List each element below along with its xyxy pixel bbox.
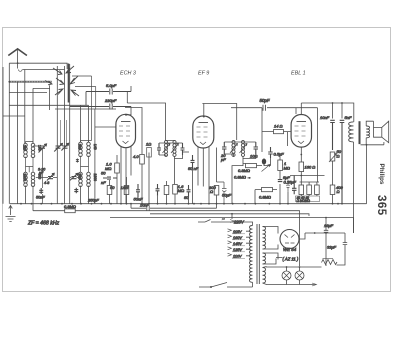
node lamp2 top xyxy=(299,266,301,268)
pot arrow xyxy=(329,154,337,163)
output transformer primary xyxy=(349,122,354,142)
wire EBL1 g2 loop xyxy=(296,108,318,182)
svg-text:pF: pF xyxy=(38,171,44,175)
svg-text:50pF: 50pF xyxy=(260,98,270,103)
lamp 2 cross xyxy=(296,272,302,278)
wire IF2 top xyxy=(224,141,256,143)
wire rect heater xyxy=(276,256,283,260)
transformer core xyxy=(257,224,259,284)
wire pot down xyxy=(332,161,334,185)
capacitor 50nF mid xyxy=(136,184,140,198)
transformer HV secondary xyxy=(263,227,266,250)
svg-text:380: 380 xyxy=(78,174,82,180)
resistor 50k xyxy=(107,186,112,195)
wire IF1 out right xyxy=(183,151,190,153)
border frame of scan xyxy=(3,28,391,292)
wire EBL1 anode riser xyxy=(301,103,354,122)
node EBL1 cath xyxy=(300,154,302,156)
wire osc components leads xyxy=(110,177,127,204)
wire 14ohm net xyxy=(262,108,292,152)
wire cath to bias line xyxy=(300,172,320,183)
wire rectifier cathode out xyxy=(299,233,345,239)
resistor 400 Ohm out xyxy=(330,185,335,195)
wire mid leads to rail xyxy=(149,153,193,204)
svg-text:10Ω: 10Ω xyxy=(250,154,258,159)
wire bottom arrow xyxy=(312,283,317,286)
wire EF9 screen bus xyxy=(231,107,318,109)
tube EF9 anode bar xyxy=(199,122,209,124)
capacitor 50n ebl xyxy=(292,176,297,195)
svg-text:MΩ: MΩ xyxy=(178,188,184,193)
tube EBL1 grid dashes xyxy=(295,126,306,136)
capacitor 50nF osc xyxy=(103,177,117,179)
output transformer secondary xyxy=(366,126,369,138)
IF2 trimmer arrow a xyxy=(230,144,238,154)
wire gnd riser speaker xyxy=(366,145,368,204)
coil L1 xyxy=(24,143,28,157)
wire IF1 secondary down xyxy=(174,159,176,185)
wire right coil column 1 xyxy=(80,105,82,142)
trimmer capacitor T2 xyxy=(54,144,62,152)
svg-text:Ω: Ω xyxy=(210,189,213,194)
capacitor mid small xyxy=(156,184,160,196)
wire HV bottom xyxy=(263,245,279,250)
transformer fil winding xyxy=(263,253,266,264)
svg-text:16μF: 16μF xyxy=(324,223,334,228)
output transformer core xyxy=(359,121,361,144)
coil L5 xyxy=(79,142,83,156)
node rect out 2 xyxy=(325,232,327,234)
capacitor 5uF xyxy=(286,180,290,192)
resistor 0.8M lower xyxy=(262,188,273,192)
switch contact arrow 2 xyxy=(66,66,74,73)
wire osc feed a xyxy=(72,76,92,141)
wire EF9 anode loop xyxy=(202,104,236,141)
coil L4 xyxy=(31,172,35,186)
svg-text:1/25: 1/25 xyxy=(121,185,130,190)
resistor 0.8M rail xyxy=(65,209,76,213)
capacitor 10nF rail xyxy=(131,204,217,211)
tap arrows xyxy=(228,229,232,256)
capacitor 50pF xyxy=(263,105,265,111)
wire switch link xyxy=(33,87,50,89)
wire coil C leads down xyxy=(81,186,89,204)
tube ECH3 cathode xyxy=(123,141,129,144)
volume pot arrow xyxy=(262,165,271,172)
capacitor 220pF xyxy=(70,104,131,110)
wire IF1 top xyxy=(159,135,183,143)
wire bus y109 xyxy=(55,108,116,110)
mains switch lever xyxy=(199,283,253,288)
resistor 300 cathode xyxy=(214,186,219,196)
trimmer capacitor T4 xyxy=(47,173,54,180)
svg-text:50nF: 50nF xyxy=(36,196,45,200)
wire long bus y105 xyxy=(9,104,88,106)
wire trimmer T2 T3 tops xyxy=(61,120,67,146)
resistor 400a xyxy=(299,185,304,195)
switch contact arrow 4 xyxy=(70,76,78,84)
wire bus y210 xyxy=(33,204,300,266)
wire coil A bottom link xyxy=(26,157,34,172)
resistor 400b xyxy=(307,185,312,195)
trimmer capacitor T5 xyxy=(70,173,78,180)
svg-text:160V: 160V xyxy=(233,236,242,240)
resistor mid 1 xyxy=(164,186,169,195)
svg-text:0.8MΩ: 0.8MΩ xyxy=(259,195,271,200)
tube EF9 top cap dot xyxy=(203,116,205,118)
svg-text:140: 140 xyxy=(93,144,97,150)
wire grid cap riser xyxy=(126,86,131,115)
node tap2 xyxy=(341,102,343,104)
band switch shaft xyxy=(68,64,70,103)
svg-text:Ω: Ω xyxy=(337,189,340,194)
node speaker gnd xyxy=(366,144,368,146)
resistor 1M avc xyxy=(278,160,283,171)
capacitor 16uF xyxy=(324,218,329,240)
wire IF2 secondary down xyxy=(242,159,244,164)
svg-text:MΩ: MΩ xyxy=(284,166,290,171)
wire lamps verticals xyxy=(287,267,300,285)
svg-text:ECH 3: ECH 3 xyxy=(120,71,136,77)
svg-text:360: 360 xyxy=(78,144,82,150)
wire IF1 bottom xyxy=(159,155,183,159)
svg-text:0.8MΩ: 0.8MΩ xyxy=(238,168,250,173)
wire 220V tap feed xyxy=(198,214,232,222)
svg-text:160 Ω: 160 Ω xyxy=(305,165,316,170)
coil L2 xyxy=(31,143,35,157)
svg-text:5.0pF: 5.0pF xyxy=(106,83,117,88)
transformer lamp winding xyxy=(263,268,266,284)
node 220 tap xyxy=(231,213,233,215)
capacitor small 6.8pF xyxy=(76,159,79,163)
wire ech3 pin down 3 xyxy=(130,147,132,176)
IF2 trimmer arrow b xyxy=(240,144,248,154)
wire lamp loop bottom xyxy=(263,283,317,285)
node 400 rail xyxy=(332,203,334,205)
svg-text:4.0: 4.0 xyxy=(133,154,139,159)
tube ECH3 grid dashes xyxy=(119,126,130,136)
svg-text:115V: 115V xyxy=(233,230,242,234)
wire HV top to rectifier xyxy=(263,227,279,234)
svg-text:( AZ 11 ): ( AZ 11 ) xyxy=(283,257,299,262)
wire mid column 2 xyxy=(56,66,58,204)
wire osc resistor lead xyxy=(141,164,143,204)
svg-text:1000: 1000 xyxy=(23,174,27,182)
capacitor 5nF xyxy=(340,120,345,203)
svg-text:WE 54: WE 54 xyxy=(283,247,297,252)
speaker xyxy=(374,121,389,145)
wire lamp loop top xyxy=(263,252,346,268)
tube ECH3 xyxy=(116,114,136,147)
svg-text:0.8MΩ →: 0.8MΩ → xyxy=(234,175,251,180)
pilot lamp 2 xyxy=(295,271,304,280)
resistor screen feeder xyxy=(147,148,152,158)
svg-text:~: ~ xyxy=(222,217,225,222)
transformer primary winding xyxy=(250,226,253,283)
tube EF9 cathode xyxy=(200,142,206,145)
wire shielded core xyxy=(9,81,51,83)
wire fil to lamps xyxy=(263,253,279,264)
resistor 0.25M xyxy=(124,186,129,195)
wire osc grid resistor feed xyxy=(125,108,142,155)
wire coil C bottom link xyxy=(81,156,89,173)
wire primary top lead xyxy=(232,222,253,226)
svg-text:4-8: 4-8 xyxy=(44,181,49,185)
ground arrow xyxy=(9,206,13,216)
node tap1 xyxy=(332,102,334,104)
svg-text:0.8MΩ: 0.8MΩ xyxy=(64,204,76,209)
wire column x94.9 xyxy=(94,109,96,204)
wire osc grid loop xyxy=(127,92,165,136)
svg-text:1Ω: 1Ω xyxy=(146,142,151,147)
wire ech3 pin down 1 xyxy=(120,147,122,204)
switch contact top xyxy=(205,220,211,223)
svg-text:50μF: 50μF xyxy=(222,193,232,198)
wire bias line left xyxy=(290,175,325,177)
svg-text:125V: 125V xyxy=(233,248,242,252)
capacitor IF2 right xyxy=(254,142,259,154)
capacitor 50uF electrolytic xyxy=(222,182,227,204)
svg-text:pF: pF xyxy=(220,157,226,162)
wire left column 1 xyxy=(2,67,4,204)
IF1 trimmer arrow b xyxy=(171,144,179,154)
capacitor 0.25uF xyxy=(278,180,283,182)
wire avc net xyxy=(232,158,271,204)
wire 16uF down xyxy=(325,240,327,266)
ground symbol xyxy=(6,217,16,222)
switch contact arrow 1 xyxy=(53,68,62,75)
node rect out 1 xyxy=(314,232,316,234)
svg-text:110V: 110V xyxy=(233,255,242,259)
tube EF9 xyxy=(193,116,214,148)
capacitor IF1 left xyxy=(157,143,161,155)
capacitor mid small 2 xyxy=(187,185,191,197)
resistor 14 Ohm xyxy=(274,130,284,134)
wire EF9 pins down xyxy=(198,147,217,204)
antenna lead wire xyxy=(17,49,19,69)
pilot lamp 1 xyxy=(282,271,291,280)
wire trimmer T1 leads xyxy=(33,146,43,204)
coil L6 xyxy=(87,142,91,156)
resistor 400c xyxy=(315,185,320,195)
svg-text:32μF: 32μF xyxy=(327,245,337,250)
antenna plug contact xyxy=(19,70,23,72)
wire left column 2 xyxy=(8,63,10,204)
wire top bus 1 xyxy=(9,63,67,69)
capacitor 0.5uF xyxy=(268,147,273,158)
svg-text:Ω: Ω xyxy=(337,154,340,159)
wire IF2 bottom xyxy=(224,154,256,159)
wire bus y217.6 xyxy=(110,218,354,233)
resistor 4.0M osc xyxy=(140,155,145,165)
wire 1M leads xyxy=(279,155,281,204)
node osc rail xyxy=(141,203,143,205)
IF1 trimmer arrow a xyxy=(163,144,171,154)
tube EBL1 xyxy=(291,115,311,148)
label 400 box xyxy=(296,196,320,202)
trimmer capacitor T3 xyxy=(61,143,68,150)
wire 400 leads xyxy=(301,182,317,196)
trimmer capacitor T1 xyxy=(39,144,47,153)
wire osc feed b xyxy=(75,87,96,110)
wire left column 4 xyxy=(24,70,26,144)
wire mid column 4 xyxy=(69,64,71,204)
node antenna junction xyxy=(17,62,19,64)
switch dot xyxy=(210,286,212,288)
wire cathode net xyxy=(217,182,225,204)
switch contact arrow 5 xyxy=(55,89,63,95)
coil L7 xyxy=(79,172,83,186)
wire mid column 3 xyxy=(64,66,66,204)
svg-text:ZF = 468 kHz: ZF = 468 kHz xyxy=(27,221,60,227)
IF transformer 1 coil b xyxy=(173,141,176,157)
node 5nf rail xyxy=(341,203,343,205)
svg-text:50: 50 xyxy=(101,171,106,176)
rectifier tube WE54 xyxy=(280,230,299,249)
wire right coil column 2 xyxy=(88,105,90,142)
wire grid resistor leads xyxy=(116,155,118,204)
capacitor 250pF xyxy=(74,188,78,194)
wire left column 3 xyxy=(17,82,19,204)
svg-text:145V: 145V xyxy=(233,242,242,246)
node ech3 pin1 rail xyxy=(120,203,122,205)
wire coil top links xyxy=(26,141,89,144)
capacitor IF1 right xyxy=(181,143,185,155)
tube EBL1 cathode xyxy=(298,141,304,144)
node A xyxy=(8,81,10,83)
tube ECH3 anode bar xyxy=(121,121,131,123)
field coil hatch xyxy=(323,258,334,260)
wire bus y92.5 xyxy=(9,92,47,94)
svg-text:10nF: 10nF xyxy=(320,115,330,120)
capacitor IF2 left xyxy=(222,142,227,154)
wire shielded segment xyxy=(9,81,51,83)
tube ECH3 top cap dot xyxy=(125,114,127,116)
IF transformer 2 coil a xyxy=(232,141,235,157)
coil L8 xyxy=(87,172,91,186)
svg-text:nF: nF xyxy=(101,180,106,185)
capacitor 50nF IF out xyxy=(191,155,195,168)
wire ech3 input xyxy=(95,126,116,128)
wire speaker top xyxy=(366,121,373,126)
svg-text:250pF: 250pF xyxy=(87,199,99,203)
ground rail xyxy=(10,203,367,205)
resistor 0.8M coupling xyxy=(246,164,257,168)
wire primary bottom lead xyxy=(252,282,254,287)
svg-text:14 Ω: 14 Ω xyxy=(274,124,283,129)
detector bead xyxy=(262,159,266,165)
node rail dots xyxy=(20,203,339,205)
wire taps to winding xyxy=(246,231,251,256)
svg-text:5nF: 5nF xyxy=(345,115,352,120)
svg-text:365: 365 xyxy=(375,195,387,216)
svg-text:EF 9: EF 9 xyxy=(198,71,209,77)
capacitor 32uF xyxy=(343,233,348,252)
svg-text:EBL 1: EBL 1 xyxy=(291,71,306,77)
resistor 1.6M xyxy=(173,185,178,195)
wire bus y214 xyxy=(150,214,309,216)
wire lower avc xyxy=(255,190,288,204)
switch contact arrow 3 xyxy=(56,78,64,85)
capacitor 5.0pF xyxy=(86,89,131,106)
tap arrow 220V xyxy=(230,220,234,223)
IF transformer 1 coil a xyxy=(164,141,167,157)
node lamp1 top xyxy=(286,266,288,268)
wire primary down xyxy=(353,142,355,233)
wire 400 down xyxy=(332,195,334,204)
lamp 1 cross xyxy=(283,272,289,278)
wire EBL1 cathode down xyxy=(300,147,302,162)
rectifier anode marks xyxy=(285,235,295,244)
tube EBL1 anode bar xyxy=(297,121,307,123)
field coil resistor xyxy=(322,260,338,265)
wire link y116 xyxy=(3,115,25,117)
IF transformer 2 coil b xyxy=(241,141,244,157)
node 16uF bus xyxy=(325,217,327,219)
wire ech3 pin down 2 xyxy=(125,148,127,204)
potentiometer 50 Ohm xyxy=(330,152,335,161)
svg-text:0.5μF: 0.5μF xyxy=(274,152,285,157)
switch contact arrow 6 xyxy=(71,90,79,96)
switch contact arrow 7 xyxy=(45,81,52,85)
wire top bus 2 xyxy=(23,69,65,71)
wire coil A leads down xyxy=(26,186,34,204)
svg-text:50 nF: 50 nF xyxy=(188,166,199,171)
tube EF9 grid dashes xyxy=(197,127,208,137)
wire speaker bottom xyxy=(361,138,384,145)
tap underline squiggles xyxy=(232,234,245,258)
resistor 1.0MOhm grid xyxy=(115,163,120,173)
wire trimmer bottom cluster leads xyxy=(36,177,81,179)
svg-text:MΩ: MΩ xyxy=(105,166,111,171)
node bias xyxy=(300,175,302,177)
antenna xyxy=(8,49,27,56)
capacitor 50nF left xyxy=(39,188,43,194)
svg-text:120: 120 xyxy=(23,145,27,151)
svg-text:Philips: Philips xyxy=(378,164,385,185)
resistor 160 Ohm xyxy=(299,162,304,172)
wire top bus taps xyxy=(333,103,343,119)
svg-text:220pF: 220pF xyxy=(104,98,117,103)
wire mid column 1 xyxy=(49,85,51,110)
svg-text:Ω MΩMΩ: Ω MΩMΩ xyxy=(297,199,311,203)
capacitor 10nF xyxy=(330,120,335,150)
svg-text:50: 50 xyxy=(110,185,115,190)
svg-text:1800: 1800 xyxy=(93,174,97,182)
coil L3 xyxy=(24,172,28,186)
svg-text:5μF: 5μF xyxy=(283,175,290,180)
wire left column 5 xyxy=(32,88,34,143)
